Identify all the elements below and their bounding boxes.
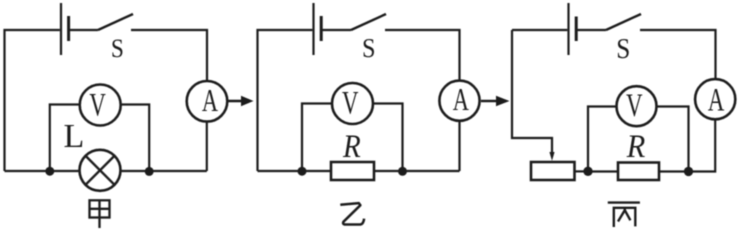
wire: ammeter A2 to bottom-right corner	[458, 121, 460, 171]
junction node dot right (circuit 甲)	[145, 167, 154, 176]
svg-text:S: S	[111, 35, 124, 63]
wire: voltmeter V2 branch left	[302, 104, 332, 172]
ammeter A2 circle	[439, 81, 479, 121]
svg-text:V: V	[342, 86, 358, 122]
wire: circuit 乙 left edge	[258, 30, 313, 171]
label 乙 (yǐ) under circuit 2	[340, 203, 364, 224]
svg-text:R: R	[342, 127, 361, 164]
svg-text:V: V	[89, 87, 106, 123]
wire: circuit 甲 bottom right segment	[120, 170, 207, 172]
resistor R (circuit 丙) body	[618, 163, 659, 181]
switch S3 blade	[606, 14, 641, 30]
label 丙 (bǐng) under circuit 3	[608, 203, 640, 227]
label A of ammeter A1	[202, 82, 218, 118]
wire: switch S1 to top-right corner and down to ammeter A1	[131, 30, 207, 81]
ammeter A3 circle	[695, 79, 735, 119]
label R of resistor (circuit 乙)	[342, 127, 361, 164]
label A of ammeter A2	[453, 81, 469, 117]
wire: circuit 甲 bottom left segment	[5, 170, 80, 172]
lamp L1 cross stroke 1	[86, 156, 115, 185]
svg-text:A: A	[708, 83, 725, 119]
wire: voltmeter V3 branch left	[588, 107, 617, 172]
label V of voltmeter V3	[626, 88, 642, 124]
wire: ammeter A3 to bottom-right corner	[689, 119, 716, 171]
wire: circuit 丙 bottom segment resistor right	[659, 170, 689, 172]
svg-text:R: R	[626, 128, 645, 164]
junction node dot left (circuit 甲)	[45, 167, 54, 176]
wire: circuit 丙 left edge down to rheostat jog	[512, 30, 552, 153]
ammeter A1 circle	[187, 81, 228, 122]
wire: battery BT1 to switch S1	[70, 29, 98, 31]
svg-text:V: V	[626, 88, 642, 124]
label S of switch S1	[111, 35, 124, 63]
wire: voltmeter V1 branch right	[120, 105, 149, 172]
battery BT1 long plate (+)	[60, 3, 62, 55]
wire: switch S3 to top-right corner and down to ammeter A3	[640, 30, 716, 79]
junction node dot right (circuit 丙)	[684, 167, 693, 176]
label 甲 (jiǎ) under circuit 1	[90, 200, 110, 228]
rheostat RP body	[531, 162, 575, 180]
lamp L1 cross stroke 2	[86, 156, 115, 185]
label S of switch S2	[362, 33, 376, 63]
svg-text:L: L	[64, 118, 85, 155]
wire: circuit 乙 bottom right segment	[374, 170, 460, 172]
wire: voltmeter V2 branch right	[373, 104, 403, 172]
svg-text:A: A	[453, 81, 469, 117]
lamp L1 circle	[80, 150, 121, 191]
svg-text:A: A	[202, 82, 218, 118]
wire: circuit 丙 top wire	[512, 29, 567, 31]
junction node dot left (circuit 丙)	[583, 167, 592, 176]
svg-text:S: S	[362, 33, 376, 63]
battery BT2 short plate (-)	[320, 16, 323, 41]
label R of resistor (circuit 丙)	[626, 128, 645, 164]
junction node dot left (circuit 乙)	[298, 167, 307, 176]
battery BT3 long plate (+)	[567, 3, 569, 55]
battery BT2 long plate (+)	[312, 3, 314, 55]
wire: circuit 乙 bottom left segment	[258, 170, 332, 172]
wire: voltmeter V3 branch right	[656, 107, 688, 172]
wire: switch S2 to top-right corner and down to ammeter A2	[385, 30, 460, 81]
svg-text:S: S	[616, 33, 630, 65]
label V of voltmeter V1	[89, 87, 106, 123]
label V of voltmeter V2	[342, 86, 358, 122]
switch S1 blade	[98, 14, 133, 30]
wire: battery BT3 to switch S3	[577, 29, 606, 31]
voltmeter V2 circle	[332, 83, 373, 124]
wire: circuit 丙 bottom segment resistor left	[588, 170, 618, 172]
resistor R (circuit 乙) body	[331, 162, 374, 180]
switch S2 blade	[351, 14, 386, 30]
wire: battery BT2 to switch S2	[322, 29, 351, 31]
battery BT3 short plate (-)	[575, 17, 578, 42]
junction node dot right (circuit 乙)	[398, 167, 407, 176]
label S of switch S3	[616, 33, 630, 65]
wire: ammeter A1 to bottom-right corner	[206, 122, 208, 171]
arrow from 乙 to 丙	[481, 96, 510, 106]
voltmeter V1 circle	[80, 85, 121, 126]
wire: voltmeter V1 branch left	[50, 105, 80, 172]
rheostat RP slider arrow head	[549, 152, 554, 161]
battery BT1 short plate (-)	[67, 16, 70, 41]
wire: circuit 甲 left edge	[5, 30, 60, 171]
voltmeter V3 circle	[617, 86, 657, 126]
label A of ammeter A3	[708, 83, 725, 119]
wire: rheostat RP to left junction (circuit 丙)	[575, 170, 589, 172]
arrow from 甲 to 乙	[228, 96, 254, 106]
